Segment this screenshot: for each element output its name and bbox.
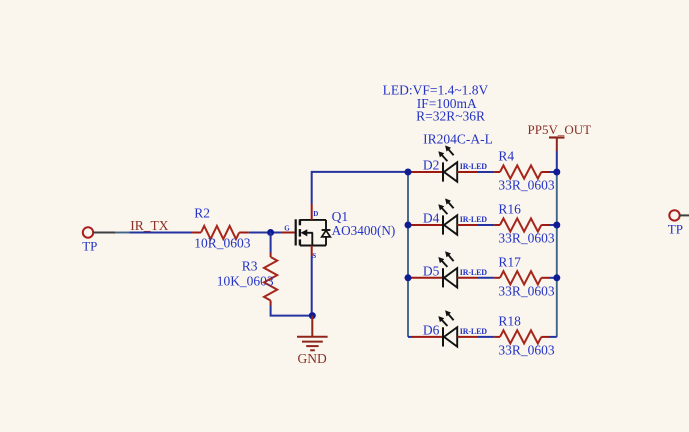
LED D5 emission arrows bbox=[438, 251, 453, 267]
resistor R2 bbox=[192, 226, 249, 239]
svg-text:10R_0603: 10R_0603 bbox=[194, 235, 251, 250]
junction on resistor bus at R16 bbox=[553, 222, 560, 229]
net label PP5V_OUT bbox=[528, 122, 592, 137]
wire R3 bottom to ground node bbox=[271, 306, 313, 316]
net label IR_TX bbox=[130, 218, 168, 233]
svg-text:IR-LED: IR-LED bbox=[460, 327, 487, 336]
test point TP (left) bbox=[82, 227, 115, 253]
svg-text:S: S bbox=[312, 252, 316, 260]
svg-text:R18: R18 bbox=[498, 314, 521, 329]
svg-text:D: D bbox=[313, 210, 318, 218]
wire D4 anode to R16 bbox=[478, 224, 494, 226]
LED D6 cathode pin bbox=[412, 336, 443, 338]
svg-text:R2: R2 bbox=[194, 205, 210, 220]
ground node junction bbox=[309, 312, 316, 319]
wire D5 anode to R17 bbox=[478, 277, 494, 279]
label D4 designator bbox=[423, 211, 440, 226]
label R18 designator bbox=[498, 314, 521, 329]
LED D6 IR204C-A-L bbox=[443, 327, 457, 346]
pin label D bbox=[313, 210, 318, 218]
value label 33R_0603 bbox=[498, 342, 555, 357]
test point TP (right) bbox=[668, 210, 689, 236]
svg-text:D4: D4 bbox=[423, 211, 440, 226]
svg-text:D5: D5 bbox=[423, 264, 440, 279]
value label 33R_0603 bbox=[498, 283, 555, 298]
node A junction (gate/R3) bbox=[267, 229, 274, 236]
pin label S bbox=[312, 252, 316, 260]
resistor R3 bbox=[264, 253, 277, 306]
pin label G bbox=[284, 225, 290, 233]
note IF=100mA bbox=[417, 96, 477, 111]
value label 33R_0603 bbox=[498, 231, 555, 246]
wire bus to D4 cathode pin bbox=[408, 224, 412, 226]
label D2 designator bbox=[423, 158, 440, 173]
LED D6 emission arrows bbox=[438, 310, 453, 326]
wire R17 to resistor bus bbox=[549, 277, 557, 279]
resistor R4 bbox=[494, 165, 549, 178]
svg-text:GND: GND bbox=[298, 351, 327, 366]
note R=32R~36R bbox=[416, 108, 485, 123]
wire net IR_TX from TP to R2 bbox=[115, 232, 192, 234]
wire resistor bus (right vertical) bbox=[556, 172, 558, 337]
svg-text:R3: R3 bbox=[242, 258, 258, 273]
label R4 designator bbox=[498, 149, 514, 164]
wire bus to D2 cathode pin bbox=[408, 171, 412, 173]
LED D2 emission arrows bbox=[438, 145, 453, 161]
junction on cathode bus at D4 bbox=[405, 222, 412, 229]
wire Q1 source to ground node bbox=[311, 256, 313, 316]
svg-text:R17: R17 bbox=[498, 255, 521, 270]
svg-text:G: G bbox=[284, 225, 290, 233]
wire bus to D5 cathode pin bbox=[408, 277, 412, 279]
LED D2 anode pin bbox=[457, 171, 478, 173]
wire Q1 drain to LED cathode bus bbox=[312, 172, 408, 204]
svg-text:R16: R16 bbox=[498, 202, 521, 217]
label D5 designator bbox=[423, 264, 440, 279]
resistor R17 bbox=[494, 271, 549, 284]
ground GND bbox=[297, 316, 328, 351]
wire bus to D6 cathode pin bbox=[408, 336, 412, 338]
junction on resistor bus at R4 bbox=[553, 169, 560, 176]
wire R16 to resistor bus bbox=[549, 224, 557, 226]
wire R18 to resistor bus bbox=[549, 336, 557, 338]
svg-text:AO3400(N): AO3400(N) bbox=[332, 223, 396, 238]
svg-text:R4: R4 bbox=[498, 149, 514, 164]
part number label IR204C-A-L bbox=[423, 132, 493, 147]
LED D5 IR204C-A-L bbox=[443, 268, 457, 287]
svg-text:D2: D2 bbox=[423, 158, 440, 173]
wire D2 anode to R4 bbox=[478, 171, 494, 173]
svg-text:Q1: Q1 bbox=[332, 209, 349, 224]
label R16 designator bbox=[498, 202, 521, 217]
transistor Q1 source pin bbox=[311, 246, 313, 257]
svg-text:10K_0603: 10K_0603 bbox=[217, 273, 274, 288]
svg-text:33R_0603: 33R_0603 bbox=[498, 283, 555, 298]
wire power to R bus bbox=[556, 151, 558, 172]
transistor Q1 body AO3400(N) bbox=[296, 219, 331, 245]
LED D2 cathode pin bbox=[412, 171, 443, 173]
value label 33R_0603 bbox=[498, 178, 555, 193]
note LED:VF=1.4~1.8V bbox=[383, 82, 489, 97]
wire R4 to resistor bus bbox=[549, 171, 557, 173]
svg-text:PP5V_OUT: PP5V_OUT bbox=[528, 122, 592, 137]
LED D5 anode pin bbox=[457, 277, 478, 279]
svg-text:IR-LED: IR-LED bbox=[460, 215, 487, 224]
wire gate pin lead-in bbox=[275, 232, 281, 234]
svg-text:IR-LED: IR-LED bbox=[460, 268, 487, 277]
junction on cathode bus at D5 bbox=[405, 274, 412, 281]
transistor Q1 gate pin bbox=[281, 232, 295, 234]
wire LED cathode bus (left vertical) bbox=[407, 172, 409, 337]
net label GND bbox=[298, 351, 327, 366]
resistor R18 bbox=[494, 330, 549, 343]
label R17 designator bbox=[498, 255, 521, 270]
svg-text:IR_TX: IR_TX bbox=[130, 218, 168, 233]
wire D6 anode to R18 bbox=[478, 336, 494, 338]
resistor R16 bbox=[494, 218, 549, 231]
power port PP5V_OUT bbox=[549, 138, 565, 152]
LED D4 IR204C-A-L bbox=[443, 215, 457, 234]
pin name label IR-LED bbox=[460, 215, 487, 224]
label Q1 designator bbox=[332, 209, 349, 224]
svg-text:33R_0603: 33R_0603 bbox=[498, 178, 555, 193]
LED D4 anode pin bbox=[457, 224, 478, 226]
wire R2 to node A bbox=[249, 232, 275, 234]
svg-text:IR-LED: IR-LED bbox=[460, 162, 487, 171]
value label 10K_0603 bbox=[217, 273, 274, 288]
LED D6 anode pin bbox=[457, 336, 478, 338]
svg-text:33R_0603: 33R_0603 bbox=[498, 231, 555, 246]
pin name label IR-LED bbox=[460, 268, 487, 277]
transistor Q1 drain pin bbox=[311, 204, 313, 220]
wire node A down to R3 bbox=[270, 233, 272, 253]
value label 10R_0603 bbox=[194, 235, 251, 250]
svg-text:TP: TP bbox=[668, 221, 683, 236]
svg-text:R=32R~36R: R=32R~36R bbox=[416, 108, 485, 123]
svg-text:D6: D6 bbox=[423, 323, 440, 338]
value label AO3400(N) bbox=[332, 223, 396, 238]
label R2 designator bbox=[194, 205, 210, 220]
svg-text:TP: TP bbox=[82, 238, 97, 253]
pin name label IR-LED bbox=[460, 162, 487, 171]
svg-text:33R_0603: 33R_0603 bbox=[498, 342, 555, 357]
pin name label IR-LED bbox=[460, 327, 487, 336]
label D6 designator bbox=[423, 323, 440, 338]
LED D2 IR204C-A-L bbox=[443, 162, 457, 181]
LED D5 cathode pin bbox=[412, 277, 443, 279]
LED D4 cathode pin bbox=[412, 224, 443, 226]
label R3 designator bbox=[242, 258, 258, 273]
LED D4 emission arrows bbox=[438, 198, 453, 214]
junction on cathode bus at D2 bbox=[405, 169, 412, 176]
svg-text:IR204C-A-L: IR204C-A-L bbox=[423, 132, 493, 147]
junction on resistor bus at R17 bbox=[553, 274, 560, 281]
